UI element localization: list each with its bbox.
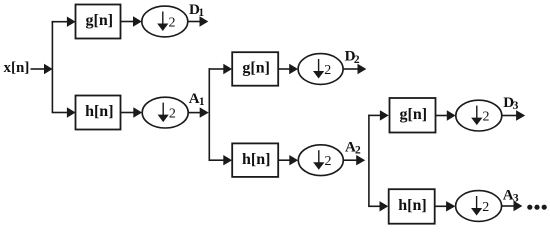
svg-text:g[n]: g[n] xyxy=(86,12,114,29)
wire downsampler to node A3 output xyxy=(502,201,523,211)
wire x[n] to level-1 split xyxy=(31,64,53,74)
node D1 label xyxy=(189,2,204,19)
svg-text:g[n]: g[n] xyxy=(242,60,270,77)
filter box g[n] level 1 xyxy=(76,5,121,39)
svg-text:h[n]: h[n] xyxy=(85,103,113,120)
svg-text:3: 3 xyxy=(513,100,519,112)
downsampler ds6 (down-arrow 2) xyxy=(456,191,502,222)
svg-text:1: 1 xyxy=(198,7,204,19)
wire split to g[n] level 3 xyxy=(368,110,389,120)
wire h3 to downsampler xyxy=(435,201,456,211)
downsampler ds4 (down-arrow 2) xyxy=(298,145,343,176)
downsampler ds1 (down-arrow 2) xyxy=(142,6,188,37)
wire level-1 splitter vertical xyxy=(51,21,53,113)
svg-text:1: 1 xyxy=(199,96,205,108)
svg-text:h[n]: h[n] xyxy=(398,197,426,214)
svg-text:3: 3 xyxy=(513,193,519,205)
wire downsampler to D1 output xyxy=(188,16,209,26)
svg-text:x[n]: x[n] xyxy=(4,60,30,76)
wire split to h[n] level 2 xyxy=(209,155,233,165)
wire level-2 splitter vertical xyxy=(208,68,210,160)
node A3 label xyxy=(503,188,519,205)
svg-text:2: 2 xyxy=(169,107,176,122)
downsampler ds5 (down-arrow 2) xyxy=(456,100,502,131)
node D3 label xyxy=(503,95,518,112)
downsampler ds3 (down-arrow 2) xyxy=(298,54,343,85)
wire split to h[n] level 1 xyxy=(52,107,76,117)
node A2 label xyxy=(345,139,361,156)
svg-text:h[n]: h[n] xyxy=(242,151,270,168)
svg-text:2: 2 xyxy=(355,145,361,157)
node A1 label xyxy=(189,91,205,108)
filter box h[n] level 3 xyxy=(389,189,435,224)
filter box g[n] level 3 xyxy=(390,98,436,133)
wire downsampler to D2 output xyxy=(343,64,366,74)
svg-text:2: 2 xyxy=(482,200,489,215)
wire h2 to downsampler xyxy=(278,155,298,165)
svg-text:2: 2 xyxy=(325,154,332,169)
wire split to g[n] level 2 xyxy=(209,64,233,74)
svg-text:g[n]: g[n] xyxy=(400,106,428,123)
ellipsis continuation dots xyxy=(527,205,547,210)
wire h1 to downsampler xyxy=(121,107,143,117)
wire downsampler to node A1 / level-2 split xyxy=(188,107,209,117)
wire g3 to downsampler xyxy=(436,110,456,120)
wire g1 to downsampler xyxy=(121,16,142,26)
wire level-3 splitter vertical xyxy=(368,115,370,207)
wire g2 to downsampler xyxy=(278,64,298,74)
svg-text:2: 2 xyxy=(483,110,490,125)
wire split to h[n] level 3 xyxy=(368,201,388,211)
node x[n] input label xyxy=(4,60,30,76)
svg-text:2: 2 xyxy=(354,54,360,66)
wire downsampler to node A2 / level-3 split xyxy=(343,155,365,165)
svg-text:2: 2 xyxy=(169,16,176,31)
filter box h[n] level 2 xyxy=(232,143,278,177)
filter box h[n] level 1 xyxy=(76,96,121,130)
svg-text:2: 2 xyxy=(324,63,331,78)
wire downsampler to D3 output xyxy=(502,110,525,120)
downsampler ds2 (down-arrow 2) xyxy=(142,97,188,128)
filter box g[n] level 2 xyxy=(232,52,278,85)
wire split to g[n] level 1 xyxy=(52,17,76,27)
node D2 label xyxy=(345,49,360,66)
